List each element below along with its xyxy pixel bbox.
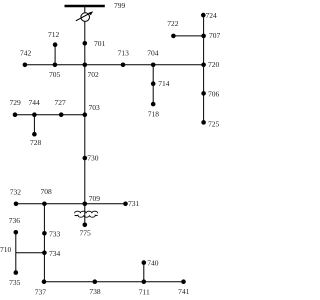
svg-text:722: 722 xyxy=(167,19,179,28)
wire 740 to 711 xyxy=(143,263,145,282)
node 728 xyxy=(32,132,37,137)
node 707 xyxy=(201,34,206,39)
node 720 xyxy=(201,63,206,68)
node 703 xyxy=(83,112,88,117)
node 704 xyxy=(151,63,156,68)
wire bar to regulator xyxy=(84,6,86,13)
svg-text:735: 735 xyxy=(9,278,21,287)
svg-text:714: 714 xyxy=(158,79,170,88)
svg-text:703: 703 xyxy=(89,103,101,112)
wire bottom 737-738-711-741 xyxy=(44,281,184,283)
svg-text:731: 731 xyxy=(128,199,140,208)
regulator arrow xyxy=(76,13,91,21)
node 738 xyxy=(93,279,98,284)
node 711 xyxy=(142,279,147,284)
wire 710 to 734 xyxy=(16,252,45,254)
regulator circle xyxy=(81,13,90,22)
svg-text:738: 738 xyxy=(89,287,101,296)
svg-text:702: 702 xyxy=(88,70,100,79)
node 741 xyxy=(181,279,186,284)
wire main horizontal 742-705-702-713-704-720 xyxy=(25,64,204,66)
node 734 xyxy=(42,251,47,256)
node 733 xyxy=(42,231,47,236)
svg-text:775: 775 xyxy=(80,229,92,238)
svg-text:709: 709 xyxy=(89,194,101,203)
wire right vertical 724-707-720-706-725 xyxy=(203,15,205,122)
node 732 xyxy=(14,202,19,207)
wire 732-708-709-731 xyxy=(16,203,126,205)
svg-text:729: 729 xyxy=(10,98,22,107)
node 744 xyxy=(32,112,37,117)
regulator arrowhead xyxy=(88,11,93,15)
svg-text:742: 742 xyxy=(20,49,32,58)
node 708 xyxy=(42,202,47,207)
node 718 xyxy=(151,102,156,107)
transformer XFM-1 windings xyxy=(75,211,98,213)
wire 736-710-735 xyxy=(15,232,17,272)
wire regulator to 709 backbone xyxy=(84,21,86,204)
source bus bar xyxy=(65,5,105,7)
svg-text:701: 701 xyxy=(94,39,106,48)
svg-text:725: 725 xyxy=(208,120,220,129)
svg-text:706: 706 xyxy=(208,89,220,98)
svg-text:744: 744 xyxy=(29,98,41,107)
node 725 xyxy=(201,120,206,125)
node 740 xyxy=(142,260,147,265)
svg-text:736: 736 xyxy=(9,216,20,225)
wire 744 to 728 xyxy=(33,115,35,135)
svg-text:741: 741 xyxy=(178,287,190,296)
node 724 xyxy=(201,13,206,18)
svg-text:734: 734 xyxy=(49,249,61,258)
svg-text:737: 737 xyxy=(35,287,47,296)
svg-text:732: 732 xyxy=(10,188,22,197)
node 730 xyxy=(83,156,88,161)
wire 722 to 707 xyxy=(173,35,203,37)
node 775 xyxy=(83,223,88,228)
svg-text:727: 727 xyxy=(55,98,67,107)
node 737 xyxy=(42,279,47,284)
wire 712 to 705 xyxy=(54,45,56,65)
node 722 xyxy=(171,34,176,39)
node 729 xyxy=(13,112,18,117)
node 706 xyxy=(201,91,206,96)
svg-text:713: 713 xyxy=(118,49,130,58)
wire 729-744-727-703 xyxy=(15,114,85,116)
node 712 xyxy=(53,42,58,47)
node 731 xyxy=(123,202,128,207)
svg-text:710: 710 xyxy=(0,245,12,254)
svg-text:728: 728 xyxy=(30,138,42,147)
node 701 xyxy=(83,41,88,46)
svg-text:708: 708 xyxy=(41,187,53,196)
svg-text:730: 730 xyxy=(87,154,99,163)
svg-text:707: 707 xyxy=(209,31,221,40)
node 735 xyxy=(14,270,19,275)
node 736 xyxy=(14,230,19,235)
node 727 xyxy=(59,112,64,117)
svg-text:720: 720 xyxy=(208,60,220,69)
node 709 xyxy=(83,202,88,207)
svg-text:718: 718 xyxy=(148,110,160,119)
svg-text:712: 712 xyxy=(48,30,60,39)
wire 704-714-718 xyxy=(152,65,154,104)
node 705 xyxy=(53,63,58,68)
svg-text:704: 704 xyxy=(147,49,159,58)
node 702 xyxy=(83,63,88,68)
wire 709 through transformer to 775 xyxy=(84,204,86,225)
svg-text:799: 799 xyxy=(114,1,126,10)
node 742 xyxy=(23,63,28,68)
svg-text:705: 705 xyxy=(49,70,61,79)
wire 708-733-734-737 xyxy=(43,204,45,282)
node 714 xyxy=(151,81,156,86)
svg-text:711: 711 xyxy=(139,287,150,296)
svg-text:740: 740 xyxy=(147,259,159,268)
svg-text:733: 733 xyxy=(49,230,61,239)
svg-text:724: 724 xyxy=(206,11,218,20)
node 713 xyxy=(121,63,126,68)
